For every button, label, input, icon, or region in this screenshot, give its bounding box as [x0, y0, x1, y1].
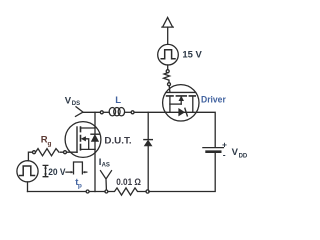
terminal node: [64, 151, 67, 154]
svg-text:DS: DS: [72, 101, 80, 107]
DUT gate bar: [76, 127, 78, 152]
svg-text:+: +: [222, 139, 227, 149]
wire through driver to corner: [166, 112, 215, 147]
bottom rail continues: [89, 191, 105, 193]
sense resistor 0.01 ohm: [108, 188, 146, 195]
freewheel diode D1: [144, 139, 152, 141]
V_DS probe: [76, 107, 83, 117]
wire to driver gate: [168, 86, 171, 92]
DUT source tie: [81, 148, 96, 150]
pulse waveform inside 15V source: [161, 50, 175, 59]
wire 15V to resistor terminal: [167, 65, 169, 70]
pulse generator circle: [17, 161, 38, 182]
inductor L: [103, 111, 109, 113]
svg-text:0.01 Ω: 0.01 Ω: [116, 177, 141, 188]
terminal node: [166, 70, 169, 73]
DUT drain tie: [81, 127, 96, 129]
wire to DUT gate: [61, 151, 78, 153]
DUT body diode: [91, 133, 99, 135]
terminal node: [146, 190, 149, 193]
wire inductor to driver: [134, 111, 166, 113]
svg-text:L: L: [115, 95, 121, 106]
terminal node: [105, 190, 108, 193]
wire arrow to 15V source: [167, 27, 169, 44]
terminal node: [131, 111, 134, 114]
svg-text:Driver: Driver: [201, 94, 226, 105]
svg-text:DD: DD: [239, 154, 248, 160]
terminal node: [33, 151, 36, 154]
freewheel diode branch wire: [147, 112, 149, 139]
I_AS probe: [101, 171, 112, 190]
terminal node: [100, 111, 103, 114]
svg-text:V: V: [65, 96, 72, 107]
svg-text:V: V: [232, 147, 239, 158]
svg-text:-: -: [223, 150, 226, 160]
wire battery to bottom: [149, 153, 215, 192]
amplitude marker 20V: [43, 165, 48, 176]
wire generator to bottom rail: [27, 182, 29, 192]
pulse source 15V circle: [158, 44, 179, 65]
battery V_DD: [203, 147, 224, 149]
Rg zigzag: [36, 149, 60, 156]
svg-text:15 V: 15 V: [182, 50, 202, 61]
terminal node: [86, 190, 89, 193]
driver gate bar: [166, 91, 195, 93]
svg-text:p: p: [78, 182, 82, 189]
driver channel dashes: [167, 95, 196, 97]
main drain wire: [83, 111, 101, 113]
driver source-body tie: [170, 103, 181, 105]
terminal node: [168, 83, 171, 86]
DUT drain wire down from main wire: [94, 112, 96, 128]
DUT arrow (n-channel): [85, 139, 89, 150]
svg-text:g: g: [48, 140, 52, 147]
tp pulse waveform: [66, 162, 87, 174]
driver source lead (left): [169, 97, 171, 113]
driver arrow (n-channel): [180, 100, 182, 105]
svg-text:D.U.T.: D.U.T.: [104, 135, 131, 146]
Rg wire from pulse gen: [28, 152, 32, 161]
driver gate resistor: [164, 73, 170, 83]
pulse waveform inside generator: [20, 166, 35, 176]
driver MOSFET circle U2: [163, 85, 199, 121]
D.U.T. MOSFET circle: [65, 122, 101, 158]
DUT source wire down: [94, 149, 96, 191]
driver drain lead (right): [192, 97, 194, 113]
bottom rail: [28, 191, 87, 193]
DUT channel dashes: [80, 127, 82, 150]
svg-text:20 V: 20 V: [48, 167, 66, 178]
power arrow (15 V supply): [162, 17, 173, 27]
svg-text:AS: AS: [102, 163, 110, 169]
driver body diode: [179, 109, 185, 116]
